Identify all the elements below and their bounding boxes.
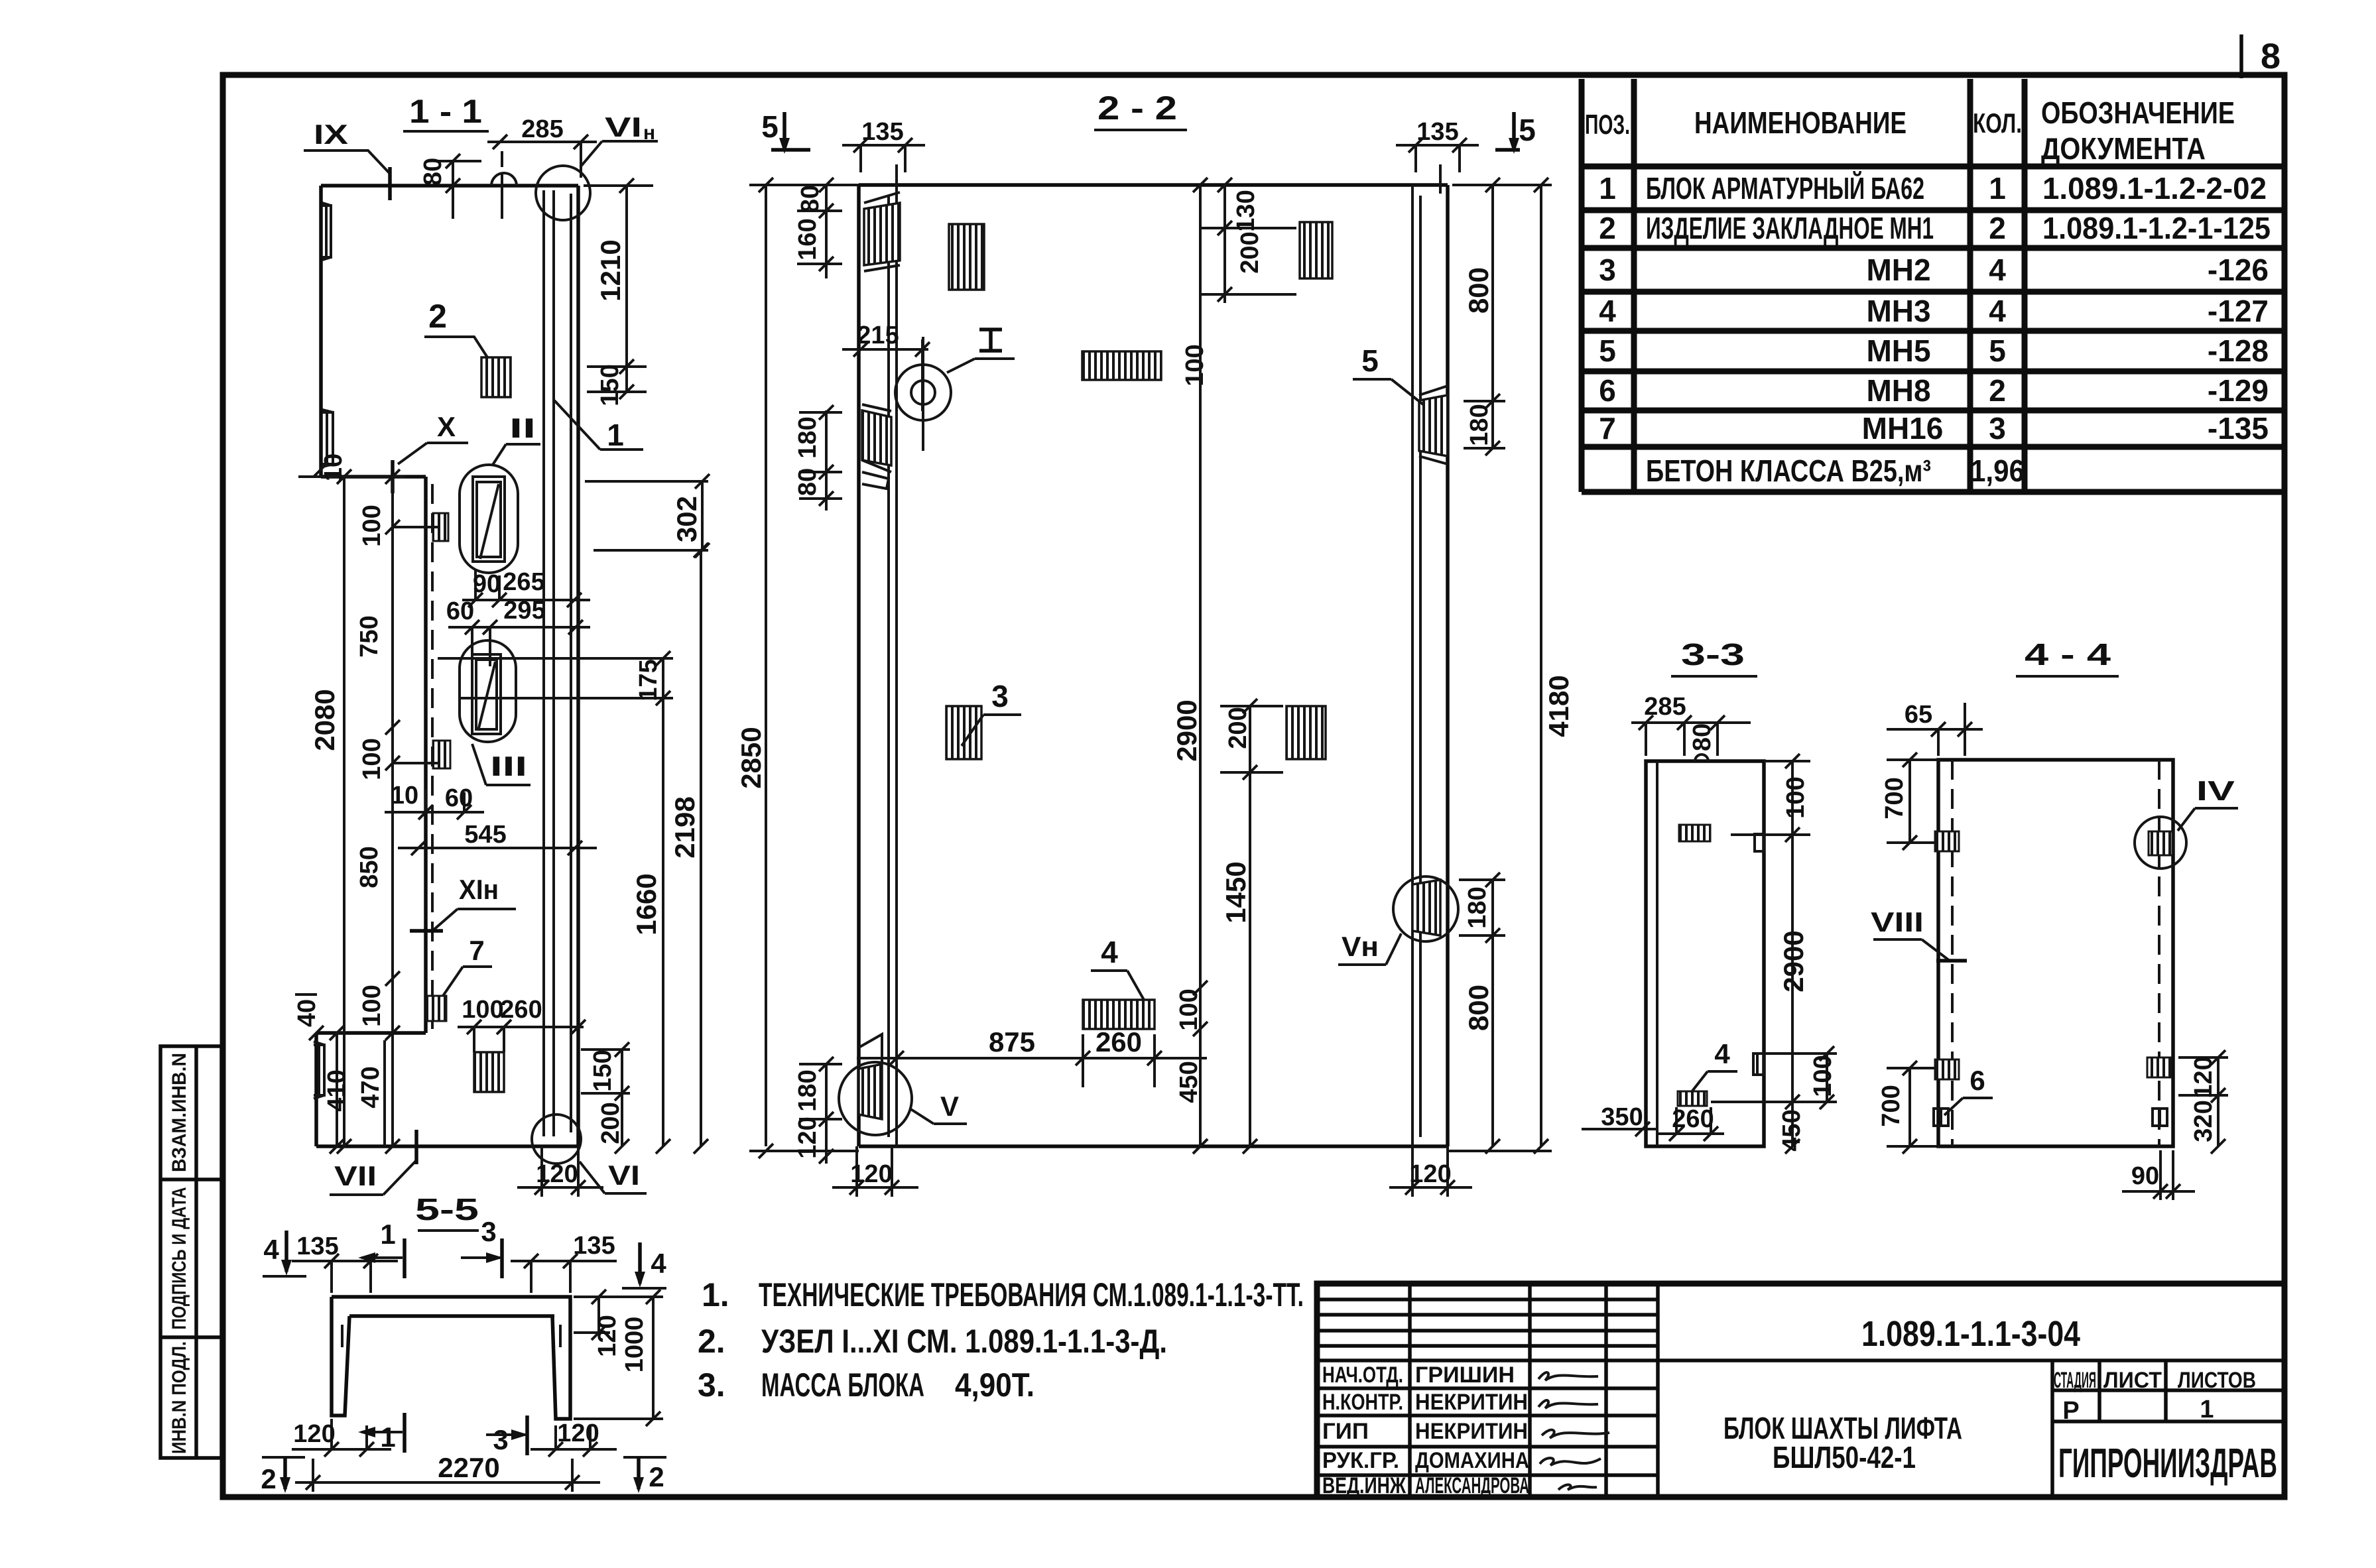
dim 120 bottom right wall: [1389, 1146, 1472, 1197]
dim 180 800 lower right: [1459, 873, 1505, 1154]
plate 4 bottom mid: [1083, 1000, 1155, 1029]
svg-text:260: 260: [1672, 1105, 1714, 1133]
svg-text:2198: 2198: [669, 796, 700, 858]
svg-text:160: 160: [794, 218, 822, 260]
svg-text:VI: VI: [608, 1160, 640, 1191]
section 3-3 title: [1671, 637, 1757, 676]
cut mark 1 top: [358, 1219, 405, 1278]
svg-text:VI: VI: [605, 111, 642, 143]
svg-text:-128: -128: [2208, 333, 2269, 368]
svg-text:ИЗДЕЛИЕ ЗАКЛАДНОЕ МН1: ИЗДЕЛИЕ ЗАКЛАДНОЕ МН1: [1646, 211, 1934, 245]
section 4-4 title: [2016, 637, 2119, 676]
dim 700 top left: [1881, 753, 1940, 850]
svg-text:VII: VII: [334, 1160, 377, 1191]
wall inner lines: [889, 185, 1420, 1146]
dashed-line plate A: [433, 513, 448, 541]
plate 44 right upper in circle: [2135, 817, 2186, 869]
svg-text:МН3: МН3: [1866, 294, 1930, 328]
dim 120 320 right: [2178, 1050, 2228, 1154]
edge mark lower: [1753, 1054, 1764, 1075]
svg-text:175: 175: [635, 659, 662, 701]
svg-text:КОЛ.: КОЛ.: [1973, 107, 2022, 139]
plate 44 left upper: [1935, 831, 1959, 851]
dim 120 right 5-5: [574, 1290, 621, 1357]
svg-text:1: 1: [1599, 171, 1616, 206]
svg-text:215: 215: [857, 322, 899, 349]
svg-text:200: 200: [597, 1102, 625, 1144]
node circle VI bottom: [532, 1115, 581, 1164]
svg-text:4: 4: [1989, 294, 2006, 328]
svg-text:7: 7: [469, 935, 484, 966]
svg-text:2: 2: [1989, 211, 2006, 245]
dim 150 200 bottom right: [581, 1042, 630, 1154]
label 1 leader: [554, 400, 643, 452]
svg-text:120: 120: [557, 1419, 599, 1447]
section 1-1 panel outline: [316, 186, 578, 1146]
svg-text:Н.КОНТР.: Н.КОНТР.: [1322, 1390, 1403, 1415]
svg-text:700: 700: [1877, 1085, 1905, 1126]
dim 90 bottom 4-4: [2122, 1150, 2195, 1200]
svg-text:180: 180: [1464, 886, 1491, 928]
svg-text:120: 120: [293, 1420, 335, 1448]
svg-text:ПОДПИСЬ И ДАТА: ПОДПИСЬ И ДАТА: [168, 1187, 190, 1330]
node circle I: [895, 337, 951, 451]
cut mark 4 right: [622, 1242, 666, 1288]
svg-text:БЕТОН КЛАССА В25,м³: БЕТОН КЛАССА В25,м³: [1646, 453, 1931, 488]
svg-text:6: 6: [1970, 1065, 1985, 1096]
svg-text:800: 800: [1463, 985, 1494, 1031]
section 1-1 title: [403, 93, 489, 131]
svg-text:80: 80: [1688, 723, 1716, 751]
wall plate top left: [864, 192, 900, 271]
dim 285 top: [487, 115, 597, 178]
svg-text:100: 100: [1175, 989, 1203, 1030]
svg-text:4: 4: [1101, 935, 1118, 969]
plate 3 mid left: [946, 706, 981, 759]
svg-text:ЛИСТОВ: ЛИСТОВ: [2178, 1368, 2256, 1393]
svg-text:1: 1: [2200, 1396, 2214, 1423]
dim 100 260 foot: [458, 996, 586, 1052]
svg-text:1.: 1.: [702, 1276, 729, 1313]
svg-text:МН16: МН16: [1862, 411, 1944, 446]
label 6: [1944, 1065, 1993, 1115]
svg-text:545: 545: [464, 821, 506, 849]
svg-text:2850: 2850: [735, 727, 767, 788]
dim 100 450 bottom right 3-3: [1711, 1046, 1837, 1152]
lifting loop: [491, 151, 517, 219]
svg-text:2: 2: [261, 1463, 276, 1494]
svg-text:VIII: VIII: [1871, 906, 1924, 937]
dim 1000 right 5-5: [574, 1290, 663, 1426]
svg-text:МН8: МН8: [1866, 373, 1930, 408]
dim 2900: [1171, 178, 1208, 1154]
svg-text:295: 295: [503, 597, 545, 625]
svg-text:100: 100: [358, 985, 386, 1026]
plate 44 right small: [2153, 1109, 2167, 1126]
cut mark 3 bottom: [486, 1416, 529, 1455]
svg-text:МАССА БЛОКА: МАССА БЛОКА: [761, 1366, 924, 1404]
svg-text:1.089.1-1.2-1-125: 1.089.1-1.2-1-125: [2042, 211, 2271, 245]
dim 410: [323, 1026, 351, 1154]
svg-text:450: 450: [1175, 1061, 1203, 1103]
svg-text:ТЕХНИЧЕСКИЕ ТРЕБОВАНИЯ СМ.1.08: ТЕХНИЧЕСКИЕ ТРЕБОВАНИЯ СМ.1.089.1-1.1-3-…: [759, 1276, 1304, 1313]
plate hatched foot: [474, 1052, 504, 1092]
svg-text:120: 120: [594, 1315, 621, 1357]
dim 80 top left: [419, 154, 481, 219]
svg-text:3.: 3.: [698, 1366, 725, 1404]
svg-text:1: 1: [607, 418, 624, 452]
svg-text:-127: -127: [2208, 294, 2269, 328]
dim 175 1660 right: [438, 651, 673, 1154]
svg-text:100: 100: [1809, 1055, 1837, 1097]
inventory strip table: [160, 1046, 221, 1458]
dim 180 80 left: [794, 405, 842, 511]
svg-text:470: 470: [357, 1066, 385, 1108]
section 4-4 outline: [1938, 760, 2173, 1146]
svg-text:НЕКРИТИН: НЕКРИТИН: [1415, 1419, 1528, 1444]
svg-text:2: 2: [649, 1461, 664, 1492]
svg-text:1: 1: [380, 1219, 395, 1250]
svg-text:3: 3: [991, 679, 1009, 713]
svg-text:8: 8: [2261, 36, 2281, 76]
svg-text:НЕКРИТИН: НЕКРИТИН: [1415, 1390, 1528, 1415]
svg-text:4: 4: [1599, 294, 1616, 328]
dim 65: [1887, 701, 1983, 756]
section 2-2 outline: [859, 185, 1448, 1146]
page number 8: [2261, 36, 2281, 76]
svg-text:5: 5: [1519, 113, 1536, 147]
svg-text:РУК.ГР.: РУК.ГР.: [1322, 1448, 1399, 1473]
svg-text:1450: 1450: [1220, 861, 1251, 923]
svg-text:800: 800: [1463, 267, 1494, 314]
svg-text:1660: 1660: [631, 873, 662, 935]
svg-text:ГРИШИН: ГРИШИН: [1415, 1362, 1515, 1388]
sheet frame: [223, 75, 2284, 1497]
svg-text:1,96: 1,96: [1970, 453, 2025, 488]
svg-text:-126: -126: [2208, 253, 2269, 287]
svg-text:БШЛ50-42-1: БШЛ50-42-1: [1773, 1440, 1916, 1475]
svg-text:100: 100: [358, 738, 386, 780]
svg-text:180: 180: [794, 1069, 822, 1111]
label III: [472, 744, 531, 785]
svg-text:II: II: [509, 412, 536, 444]
svg-text:МН5: МН5: [1866, 333, 1930, 368]
svg-text:V: V: [940, 1091, 959, 1122]
svg-text:НАЧ.ОТД.: НАЧ.ОТД.: [1322, 1362, 1403, 1388]
svg-text:2 - 2: 2 - 2: [1097, 90, 1177, 127]
svg-text:2.: 2.: [698, 1323, 725, 1360]
plate 3-3 upper: [1679, 825, 1710, 841]
svg-text:80: 80: [794, 468, 822, 496]
label IX: [304, 119, 390, 200]
svg-text:2080: 2080: [309, 689, 340, 751]
dim 130 200 top mid: [1200, 178, 1296, 303]
plate 2 hatched: [481, 357, 511, 397]
svg-text:700: 700: [1881, 777, 1908, 819]
svg-text:3: 3: [481, 1216, 496, 1247]
edge plate mid: [322, 410, 333, 467]
svg-text:1: 1: [1989, 171, 2006, 206]
svg-text:1 - 1: 1 - 1: [409, 93, 482, 130]
svg-text:4180: 4180: [1543, 675, 1574, 737]
svg-text:СТАДИЯ: СТАДИЯ: [2054, 1368, 2096, 1393]
hook: [1695, 754, 1708, 761]
svg-text:МН2: МН2: [1866, 253, 1930, 287]
label V: [910, 1091, 967, 1124]
svg-text:100: 100: [358, 505, 386, 546]
technical notes: [698, 1276, 1304, 1404]
label 4 of 3-3: [1691, 1038, 1737, 1093]
plate 44 right lower: [2147, 1057, 2171, 1077]
svg-text:80: 80: [796, 185, 824, 213]
svg-text:НАИМЕНОВАНИЕ: НАИМЕНОВАНИЕ: [1694, 105, 1907, 140]
svg-text:ЛИСТ: ЛИСТ: [2103, 1368, 2162, 1393]
svg-text:120: 120: [794, 1116, 822, 1158]
dim 135 topleft 5-5: [292, 1233, 398, 1293]
dim 700 bottom left: [1877, 1061, 1940, 1154]
dim 180 120 bottom far left: [794, 1057, 842, 1164]
svg-text:4: 4: [1989, 253, 2006, 287]
label VIII: [1871, 906, 1967, 961]
dim 350 260: [1582, 1103, 1724, 1141]
section mark 5 top right: [1495, 112, 1536, 154]
svg-text:III: III: [490, 751, 527, 782]
cut mark 4 left: [263, 1231, 306, 1276]
svg-text:ДОКУМЕНТА: ДОКУМЕНТА: [2041, 131, 2206, 166]
svg-text:320: 320: [2190, 1100, 2218, 1142]
svg-text:Vн: Vн: [1342, 931, 1379, 962]
hidden edge dashed: [431, 484, 434, 1031]
section 2-2 title: [1094, 90, 1187, 130]
plate 44 left lower: [1935, 1059, 1959, 1079]
svg-text:90: 90: [473, 570, 501, 598]
label VI bottom: [580, 1160, 647, 1193]
svg-text:100: 100: [462, 996, 503, 1024]
edge mark upper: [1755, 834, 1764, 851]
svg-text:5: 5: [1989, 333, 2006, 368]
svg-text:1.089.1-1.1-3-04: 1.089.1-1.1-3-04: [1861, 1314, 2080, 1354]
edge plate upper: [322, 203, 331, 260]
inner foot edge: [383, 1040, 386, 1146]
plate MH top mid: [949, 224, 984, 290]
svg-text:ВЗАМ.ИНВ.N: ВЗАМ.ИНВ.N: [168, 1053, 190, 1172]
section 5-5 channel outline: [332, 1297, 570, 1419]
svg-text:850: 850: [355, 846, 383, 888]
dim 120 bottomleft 5-5: [292, 1419, 391, 1457]
dim 40 step: [293, 995, 324, 1040]
svg-text:4 - 4: 4 - 4: [2025, 637, 2111, 672]
svg-text:180: 180: [794, 416, 822, 458]
svg-text:УЗЕЛ I...XI СМ. 1.089.1-1.1-3-: УЗЕЛ I...XI СМ. 1.089.1-1.1-3-Д.: [761, 1323, 1167, 1360]
dim 120 bottomright 5-5: [531, 1419, 617, 1457]
svg-text:4: 4: [651, 1248, 666, 1279]
svg-text:7: 7: [1599, 411, 1616, 446]
svg-text:150: 150: [596, 364, 624, 406]
page number 8 tick: [2239, 34, 2243, 78]
svg-text:100: 100: [1181, 344, 1209, 386]
dim 135 top right: [1396, 118, 1479, 172]
svg-text:875: 875: [989, 1026, 1035, 1057]
plate 44 left small: [1934, 1109, 1948, 1126]
svg-text:410: 410: [323, 1069, 351, 1111]
dim 1210 and 150 right: [584, 178, 653, 406]
svg-text:-129: -129: [2208, 373, 2269, 408]
section mark 5 top left: [761, 109, 810, 154]
svg-text:5: 5: [761, 109, 779, 144]
svg-text:200: 200: [1224, 707, 1252, 749]
anchor window oval III: [460, 640, 516, 742]
dim 545: [398, 821, 597, 855]
label XIn: [410, 874, 516, 931]
label 4 leader: [1091, 935, 1144, 1000]
dim 2198: [669, 543, 708, 1154]
svg-text:100: 100: [1782, 776, 1810, 818]
svg-text:1: 1: [380, 1421, 395, 1453]
dashed-line plate B: [433, 741, 450, 768]
label 3 leader: [962, 679, 1021, 746]
svg-text:2: 2: [1989, 373, 2006, 408]
svg-text:135: 135: [296, 1233, 338, 1260]
svg-text:6: 6: [1599, 373, 1616, 408]
wall face lines: [544, 190, 571, 1136]
svg-text:350: 350: [1601, 1103, 1643, 1131]
svg-text:750: 750: [355, 615, 383, 657]
svg-text:135: 135: [1416, 118, 1458, 146]
dim 10 60 mid: [385, 782, 484, 819]
node circle VIn: [536, 166, 590, 220]
dim 2850 left: [735, 178, 859, 1158]
svg-text:ВЕД.ИНЖ: ВЕД.ИНЖ: [1322, 1473, 1406, 1498]
dim 100 450: [1175, 981, 1208, 1154]
svg-text:ДОМАХИНА: ДОМАХИНА: [1415, 1448, 1529, 1473]
svg-text:1210: 1210: [595, 239, 626, 301]
svg-text:265: 265: [503, 568, 544, 596]
label VIn top: [580, 111, 658, 167]
wall plate bottom left V: [839, 1034, 912, 1135]
dim 10 step: [314, 453, 347, 481]
svg-text:IX: IX: [314, 119, 348, 150]
svg-text:БЛОК АРМАТУРНЫЙ БА62: БЛОК АРМАТУРНЫЙ БА62: [1646, 171, 1924, 206]
dim 4180: [1448, 178, 1574, 1154]
svg-text:5: 5: [1599, 333, 1616, 368]
svg-text:260: 260: [500, 996, 542, 1024]
svg-text:X: X: [437, 411, 456, 442]
label VH: [1338, 931, 1401, 965]
svg-text:ПОЗ.: ПОЗ.: [1585, 109, 1630, 140]
plate 3-3 lower: [1678, 1091, 1707, 1106]
dim column 100 750 100 850 100 470: [298, 469, 438, 1154]
svg-text:4: 4: [263, 1234, 279, 1265]
svg-text:ИНВ.N ПОДЛ.: ИНВ.N ПОДЛ.: [168, 1341, 190, 1454]
svg-text:285: 285: [521, 115, 563, 143]
label X: [393, 411, 468, 493]
title block: [1317, 1284, 2284, 1498]
label II: [493, 412, 540, 465]
svg-text:ГИПРОНИИЗДРАВ: ГИПРОНИИЗДРАВ: [2058, 1441, 2277, 1486]
svg-text:120: 120: [2190, 1056, 2218, 1098]
svg-text:IV: IV: [2196, 775, 2235, 806]
svg-text:4: 4: [1714, 1038, 1730, 1069]
cut mark 2 left: [261, 1457, 305, 1494]
dim 80 160 left: [794, 178, 842, 278]
wall plate right VH: [1393, 876, 1458, 941]
wall plate right 5: [1419, 386, 1448, 464]
svg-text:135: 135: [573, 1232, 615, 1260]
svg-text:60: 60: [446, 597, 474, 625]
svg-text:2900: 2900: [1778, 930, 1809, 992]
label 7: [443, 935, 492, 996]
foot edge plate: [314, 1042, 324, 1099]
svg-text:180: 180: [1466, 404, 1493, 446]
svg-text:-135: -135: [2208, 411, 2269, 446]
svg-text:90: 90: [2131, 1162, 2159, 1190]
dim 875 260: [857, 1026, 1207, 1087]
dim 135 topright 5-5: [511, 1232, 617, 1293]
dim right 100 2900: [1731, 754, 1810, 1154]
svg-text:5: 5: [1361, 343, 1379, 378]
dim 200 1450: [1220, 699, 1283, 1154]
svg-text:120: 120: [536, 1160, 578, 1188]
svg-text:120: 120: [1409, 1160, 1451, 1188]
dim 302 right: [585, 474, 710, 558]
svg-text:3: 3: [1989, 411, 2006, 446]
svg-text:200: 200: [1236, 231, 1264, 273]
dim column 2080: [309, 469, 351, 1154]
svg-text:3-3: 3-3: [1681, 637, 1745, 672]
svg-text:1.089.1-1.2-2-02: 1.089.1-1.2-2-02: [2042, 171, 2267, 206]
dim 2270: [295, 1452, 600, 1492]
svg-text:ГИП: ГИП: [1322, 1419, 1369, 1444]
dim 285 80: [1631, 693, 1751, 756]
cut mark 2 right: [623, 1457, 666, 1493]
section 3-3 outline: [1646, 754, 1764, 1146]
label I: [947, 330, 1015, 373]
svg-text:2270: 2270: [438, 1452, 499, 1483]
svg-text:XIн: XIн: [459, 874, 499, 905]
svg-text:260: 260: [1095, 1026, 1142, 1057]
svg-text:120: 120: [850, 1160, 892, 1188]
dim 215: [842, 322, 930, 411]
svg-text:4,90Т.: 4,90Т.: [955, 1366, 1034, 1404]
svg-text:5-5: 5-5: [415, 1192, 479, 1227]
cut mark 3 top: [461, 1216, 503, 1278]
svg-text:3: 3: [493, 1424, 508, 1455]
plate mid right: [1286, 706, 1326, 759]
svg-text:40: 40: [293, 999, 321, 1027]
anchor window oval II: [460, 465, 518, 573]
specification table: [1582, 79, 2284, 492]
svg-text:65: 65: [1905, 701, 1932, 729]
svg-text:150: 150: [589, 1050, 617, 1091]
dim 90 265: [462, 568, 590, 607]
svg-text:2900: 2900: [1171, 699, 1202, 761]
cut mark 1 bottom: [358, 1413, 405, 1453]
svg-text:10: 10: [391, 782, 418, 810]
svg-text:ОБОЗНАЧЕНИЕ: ОБОЗНАЧЕНИЕ: [2041, 95, 2235, 130]
svg-text:302: 302: [671, 496, 702, 542]
svg-text:2: 2: [428, 298, 447, 335]
svg-text:130: 130: [1232, 190, 1260, 231]
label 5 leader: [1353, 343, 1423, 404]
svg-text:285: 285: [1644, 693, 1686, 721]
wall plate left mid: [862, 404, 891, 489]
svg-text:80: 80: [419, 158, 447, 186]
svg-text:60: 60: [445, 784, 473, 812]
svg-text:1000: 1000: [621, 1317, 649, 1373]
dim 120 bottom wall: [517, 1146, 603, 1197]
svg-text:2: 2: [1599, 211, 1616, 245]
svg-text:135: 135: [861, 118, 903, 146]
